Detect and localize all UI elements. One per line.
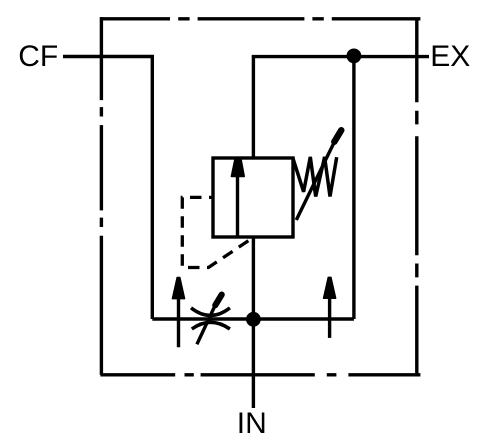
flow path arrow inside valve <box>236 174 239 237</box>
valve body V1 (pressure regulator envelope) <box>213 158 293 237</box>
free-flow arrow right (through bottom line) <box>328 282 331 338</box>
variable restrictor arcs on bottom line <box>191 308 230 316</box>
wire right vertical from EX node <box>352 57 355 319</box>
svg-text:CF: CF <box>18 40 58 73</box>
svg-text:IN: IN <box>237 407 267 440</box>
enclosure boundary bottom edge (dash-dot) <box>100 373 420 376</box>
wire CF vertical down left side <box>151 57 154 320</box>
junction node on EX line <box>347 49 362 64</box>
enclosure boundary right edge (dash-dot) <box>415 19 418 375</box>
wire CF port line <box>63 55 154 58</box>
enclosure boundary top edge (dash-dot) <box>100 17 420 20</box>
pilot line (dashed) from below valve to valve left side <box>182 197 252 267</box>
wire IN vertical below valve <box>252 237 255 408</box>
spring (adjustable) on valve right side <box>293 157 337 197</box>
wire bottom horizontal <box>152 317 354 320</box>
wire EX horizontal with corner down to valve top <box>253 57 429 158</box>
junction node on bottom line (IN tee) <box>246 312 261 327</box>
enclosure boundary left edge (dash-dot) <box>100 17 103 375</box>
svg-text:EX: EX <box>430 40 470 73</box>
adjustment arrow across spring <box>296 137 337 221</box>
restrictor adjustment arrow <box>197 304 216 345</box>
free-flow arrow left (through bottom line) <box>177 282 180 347</box>
